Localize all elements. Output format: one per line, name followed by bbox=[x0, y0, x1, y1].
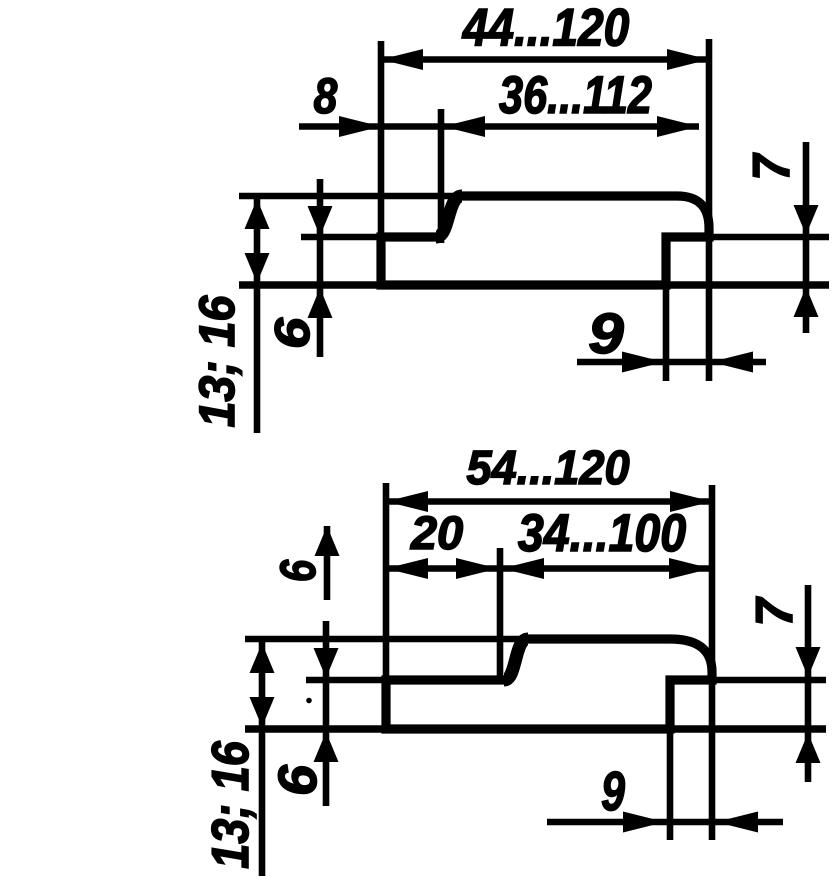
arrow 7 up bbox=[794, 287, 819, 317]
svg-text:6: 6 bbox=[266, 317, 320, 349]
dimension line 13;16 bbox=[254, 197, 261, 433]
extension line top-left (y=639) bbox=[245, 636, 532, 643]
extension line bottom (y=729) bbox=[245, 725, 826, 732]
dimension line 20 / 34...100 bbox=[386, 565, 711, 572]
arrow 34...100 left bbox=[502, 558, 544, 579]
extension line mid-left (y=237) bbox=[301, 234, 381, 241]
step fillet emphasis (bottom drawing) bbox=[504, 639, 528, 680]
extension line notch-left (x=666) bbox=[663, 240, 670, 381]
svg-text:13; 16: 13; 16 bbox=[202, 740, 260, 868]
svg-text:34...100: 34...100 bbox=[518, 504, 686, 563]
extension line top-left (y=196) bbox=[239, 193, 463, 200]
extension line notch-left (x=670) bbox=[667, 729, 674, 840]
extension line right (x=712) bbox=[709, 485, 716, 840]
svg-text:7: 7 bbox=[746, 596, 804, 626]
stray ink dot bottom bbox=[306, 698, 312, 704]
svg-text:44...120: 44...120 bbox=[462, 0, 630, 58]
arrow 44...120 left bbox=[381, 49, 423, 70]
dimension line 9 bbox=[547, 819, 783, 826]
dimension line 7 bbox=[805, 585, 812, 782]
dimension line 54...120 bbox=[386, 498, 712, 505]
svg-text:9: 9 bbox=[588, 302, 624, 366]
arrow 20 left bbox=[386, 558, 428, 579]
dimension line 36...112 bbox=[443, 123, 699, 130]
svg-text:7: 7 bbox=[743, 153, 801, 181]
arrow 7 down bbox=[796, 647, 821, 677]
extension line left (x=386) bbox=[383, 483, 390, 680]
arrow 44...120 right bbox=[667, 49, 709, 70]
svg-text:13; 16: 13; 16 bbox=[189, 294, 245, 427]
arrow 7 up bbox=[796, 733, 821, 763]
arrow 36...112 right bbox=[657, 116, 699, 137]
extension line right (x=709) bbox=[706, 39, 713, 381]
arrow 54...120 right bbox=[670, 491, 712, 512]
arrow 54...120 left bbox=[386, 491, 428, 512]
arrow 13;16 down bbox=[250, 697, 275, 727]
extension line notch-top right (y=680) bbox=[670, 677, 826, 684]
arrow 13;16 up bbox=[250, 643, 275, 673]
dimension line 9 bbox=[577, 359, 766, 366]
dimension line 7 bbox=[803, 142, 810, 333]
arrow 9 right bbox=[711, 352, 753, 373]
dimension line 13;16 bbox=[259, 641, 266, 876]
arrow 6 down bbox=[308, 206, 333, 236]
extension line bottom (y=285) bbox=[239, 281, 829, 288]
profile outline (top drawing) bbox=[381, 196, 709, 285]
arrow 13;16 up bbox=[245, 199, 270, 229]
dimension line 6 lower bbox=[323, 621, 330, 806]
extension line notch-top right (y=237) bbox=[666, 234, 829, 241]
svg-text:8: 8 bbox=[314, 68, 338, 124]
dimension line 8 bbox=[299, 123, 445, 130]
arrow 7 down bbox=[794, 205, 819, 235]
arrow 36...112 left bbox=[443, 116, 485, 137]
step fillet emphasis (top drawing) bbox=[436, 196, 462, 237]
arrow 6 lower up bbox=[314, 732, 339, 762]
dimension line 44...120 bbox=[381, 56, 709, 63]
arrow 9 left bbox=[623, 812, 665, 833]
arrow 8 bbox=[339, 116, 381, 137]
extension line left (x=381) bbox=[378, 41, 385, 285]
arrow 13;16 down bbox=[245, 253, 270, 283]
svg-text:6: 6 bbox=[270, 559, 326, 582]
arrow 6 upper up bbox=[315, 526, 340, 556]
extension line step (x=441) bbox=[438, 109, 445, 243]
arrow 9 left bbox=[622, 352, 664, 373]
svg-text:54...120: 54...120 bbox=[466, 442, 629, 495]
extension line step-left (y=680) bbox=[306, 677, 386, 684]
dimension line 6 upper bbox=[324, 526, 331, 600]
svg-text:9: 9 bbox=[601, 760, 625, 822]
extension line mid (x=500) bbox=[497, 548, 504, 680]
arrow 20 right bbox=[456, 558, 498, 579]
arrow 34...100 right bbox=[669, 558, 711, 579]
arrow 6 up bbox=[308, 288, 333, 318]
arrow 6 lower down bbox=[314, 648, 339, 678]
svg-text:36...112: 36...112 bbox=[499, 66, 652, 125]
arrow 9 right bbox=[716, 812, 758, 833]
profile outline (bottom drawing) bbox=[386, 639, 712, 729]
svg-text:20: 20 bbox=[410, 506, 463, 559]
svg-text:6: 6 bbox=[268, 764, 328, 796]
dimension line 6 bbox=[317, 179, 324, 357]
